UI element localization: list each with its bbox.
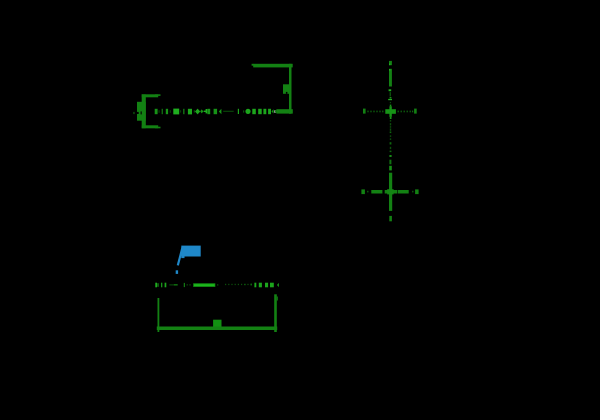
- value text row of component U2 (faint middle dots): [225, 284, 252, 286]
- fiducial F1 right tick: [414, 109, 417, 114]
- fiducial F2 right dash: [398, 190, 409, 194]
- centerline top cap dash: [389, 61, 392, 65]
- pad P1 (left terminal block of connector J1): [133, 102, 146, 121]
- fiducial F2 left dot: [367, 191, 368, 193]
- centerline dotted segment between fiducials: [389, 120, 392, 170]
- silkscreen right bracket of J1 with pin-1 tab: [252, 64, 293, 114]
- centerline dot a: [389, 89, 392, 91]
- centerline dash d: [388, 99, 392, 100]
- fiducial crosshair F1 center: [385, 105, 396, 119]
- centerline long dash: [389, 69, 392, 87]
- fiducial crosshair F2 vertical bar: [389, 173, 392, 211]
- fiducial F2 center bulge: [387, 189, 393, 194]
- component U2 body outline right wall: [274, 294, 278, 332]
- centerline dot c: [390, 97, 392, 98]
- value text bright glyphs of U2: [254, 283, 279, 288]
- centerline bottom dash below F2: [389, 216, 392, 221]
- component U2 body outline left wall: [158, 298, 160, 332]
- value label text row of J1: [155, 109, 274, 115]
- reference text row of component U2: [155, 283, 218, 288]
- fiducial F2 center horizontal: [385, 190, 397, 194]
- fiducial F1 left tick: [363, 109, 366, 114]
- drill mark (gray) at pad P2: [274, 110, 276, 113]
- pad P2 (right terminal bar of connector J1): [275, 109, 293, 113]
- centerline dash b: [390, 92, 391, 96]
- fiducial F2 right dot: [412, 191, 413, 193]
- component U2 body outline bottom wall: [157, 327, 277, 331]
- centerline dot e: [390, 102, 391, 103]
- silkscreen left bracket of J1: [142, 94, 161, 128]
- fiducial F2 left dash: [371, 190, 382, 194]
- fiducial F2 left square tick: [361, 189, 365, 194]
- component U2 polarity bump: [213, 320, 221, 327]
- fiducial F1 right dotted arm: [398, 111, 414, 113]
- fiducial F1 left dotted arm: [367, 111, 383, 113]
- fiducial F2 right square tick: [415, 189, 419, 194]
- blue probe flag marker: [176, 246, 201, 274]
